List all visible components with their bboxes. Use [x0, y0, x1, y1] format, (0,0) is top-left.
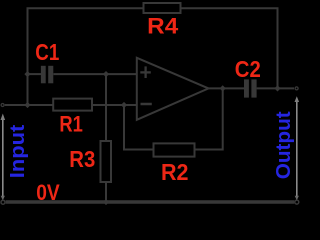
svg-text:Input: Input: [7, 124, 29, 178]
capacitor C2: [244, 79, 257, 97]
input terminal: [1, 104, 4, 107]
capacitor C1: [41, 66, 53, 84]
svg-text:R3: R3: [69, 146, 95, 172]
resistor R4: [144, 3, 181, 13]
0V rail: [6, 200, 295, 203]
svg-text:R1: R1: [59, 111, 83, 136]
node R3 ground junction: [103, 199, 109, 205]
node feedback junction: [274, 85, 280, 91]
wire top rail left segment: [28, 8, 144, 105]
input voltage arrow: [1, 114, 6, 201]
resistor R1: [53, 99, 92, 111]
node plus junction: [103, 71, 109, 77]
wire C2 to output terminal: [257, 87, 294, 89]
ground terminal right: [295, 200, 299, 204]
resistor R2: [154, 143, 195, 156]
output terminal: [295, 87, 298, 90]
wire C1 row left stub: [28, 73, 42, 75]
wire R3 bottom vertical: [105, 182, 107, 202]
svg-text:C2: C2: [235, 56, 261, 82]
wire input row left: [5, 104, 53, 106]
svg-text:0V: 0V: [36, 180, 60, 205]
wire R2 to output vertical: [195, 88, 223, 149]
node minus junction: [121, 102, 127, 108]
svg-text:R2: R2: [161, 159, 189, 185]
wire R3 top vertical: [105, 74, 107, 141]
node input-left junction: [24, 102, 30, 108]
op-amp U1: [137, 58, 209, 120]
op-amp - pin: [141, 103, 152, 106]
wire op-amp output row: [209, 87, 245, 89]
wire C1 to op-amp + input: [54, 73, 137, 75]
wire top rail right segment: [181, 8, 278, 88]
ground terminal left: [1, 200, 5, 204]
wire R1 to op-amp - input: [92, 104, 137, 106]
node output junction: [220, 85, 226, 91]
svg-text:Output: Output: [273, 111, 295, 179]
node C1 left junction: [24, 71, 30, 77]
svg-text:C1: C1: [35, 39, 59, 65]
svg-text:R4: R4: [147, 14, 179, 39]
op-amp + pin: [140, 66, 151, 78]
output voltage arrow: [295, 96, 300, 200]
wire minus node down to R2 row: [124, 105, 154, 150]
resistor R3: [101, 141, 112, 182]
